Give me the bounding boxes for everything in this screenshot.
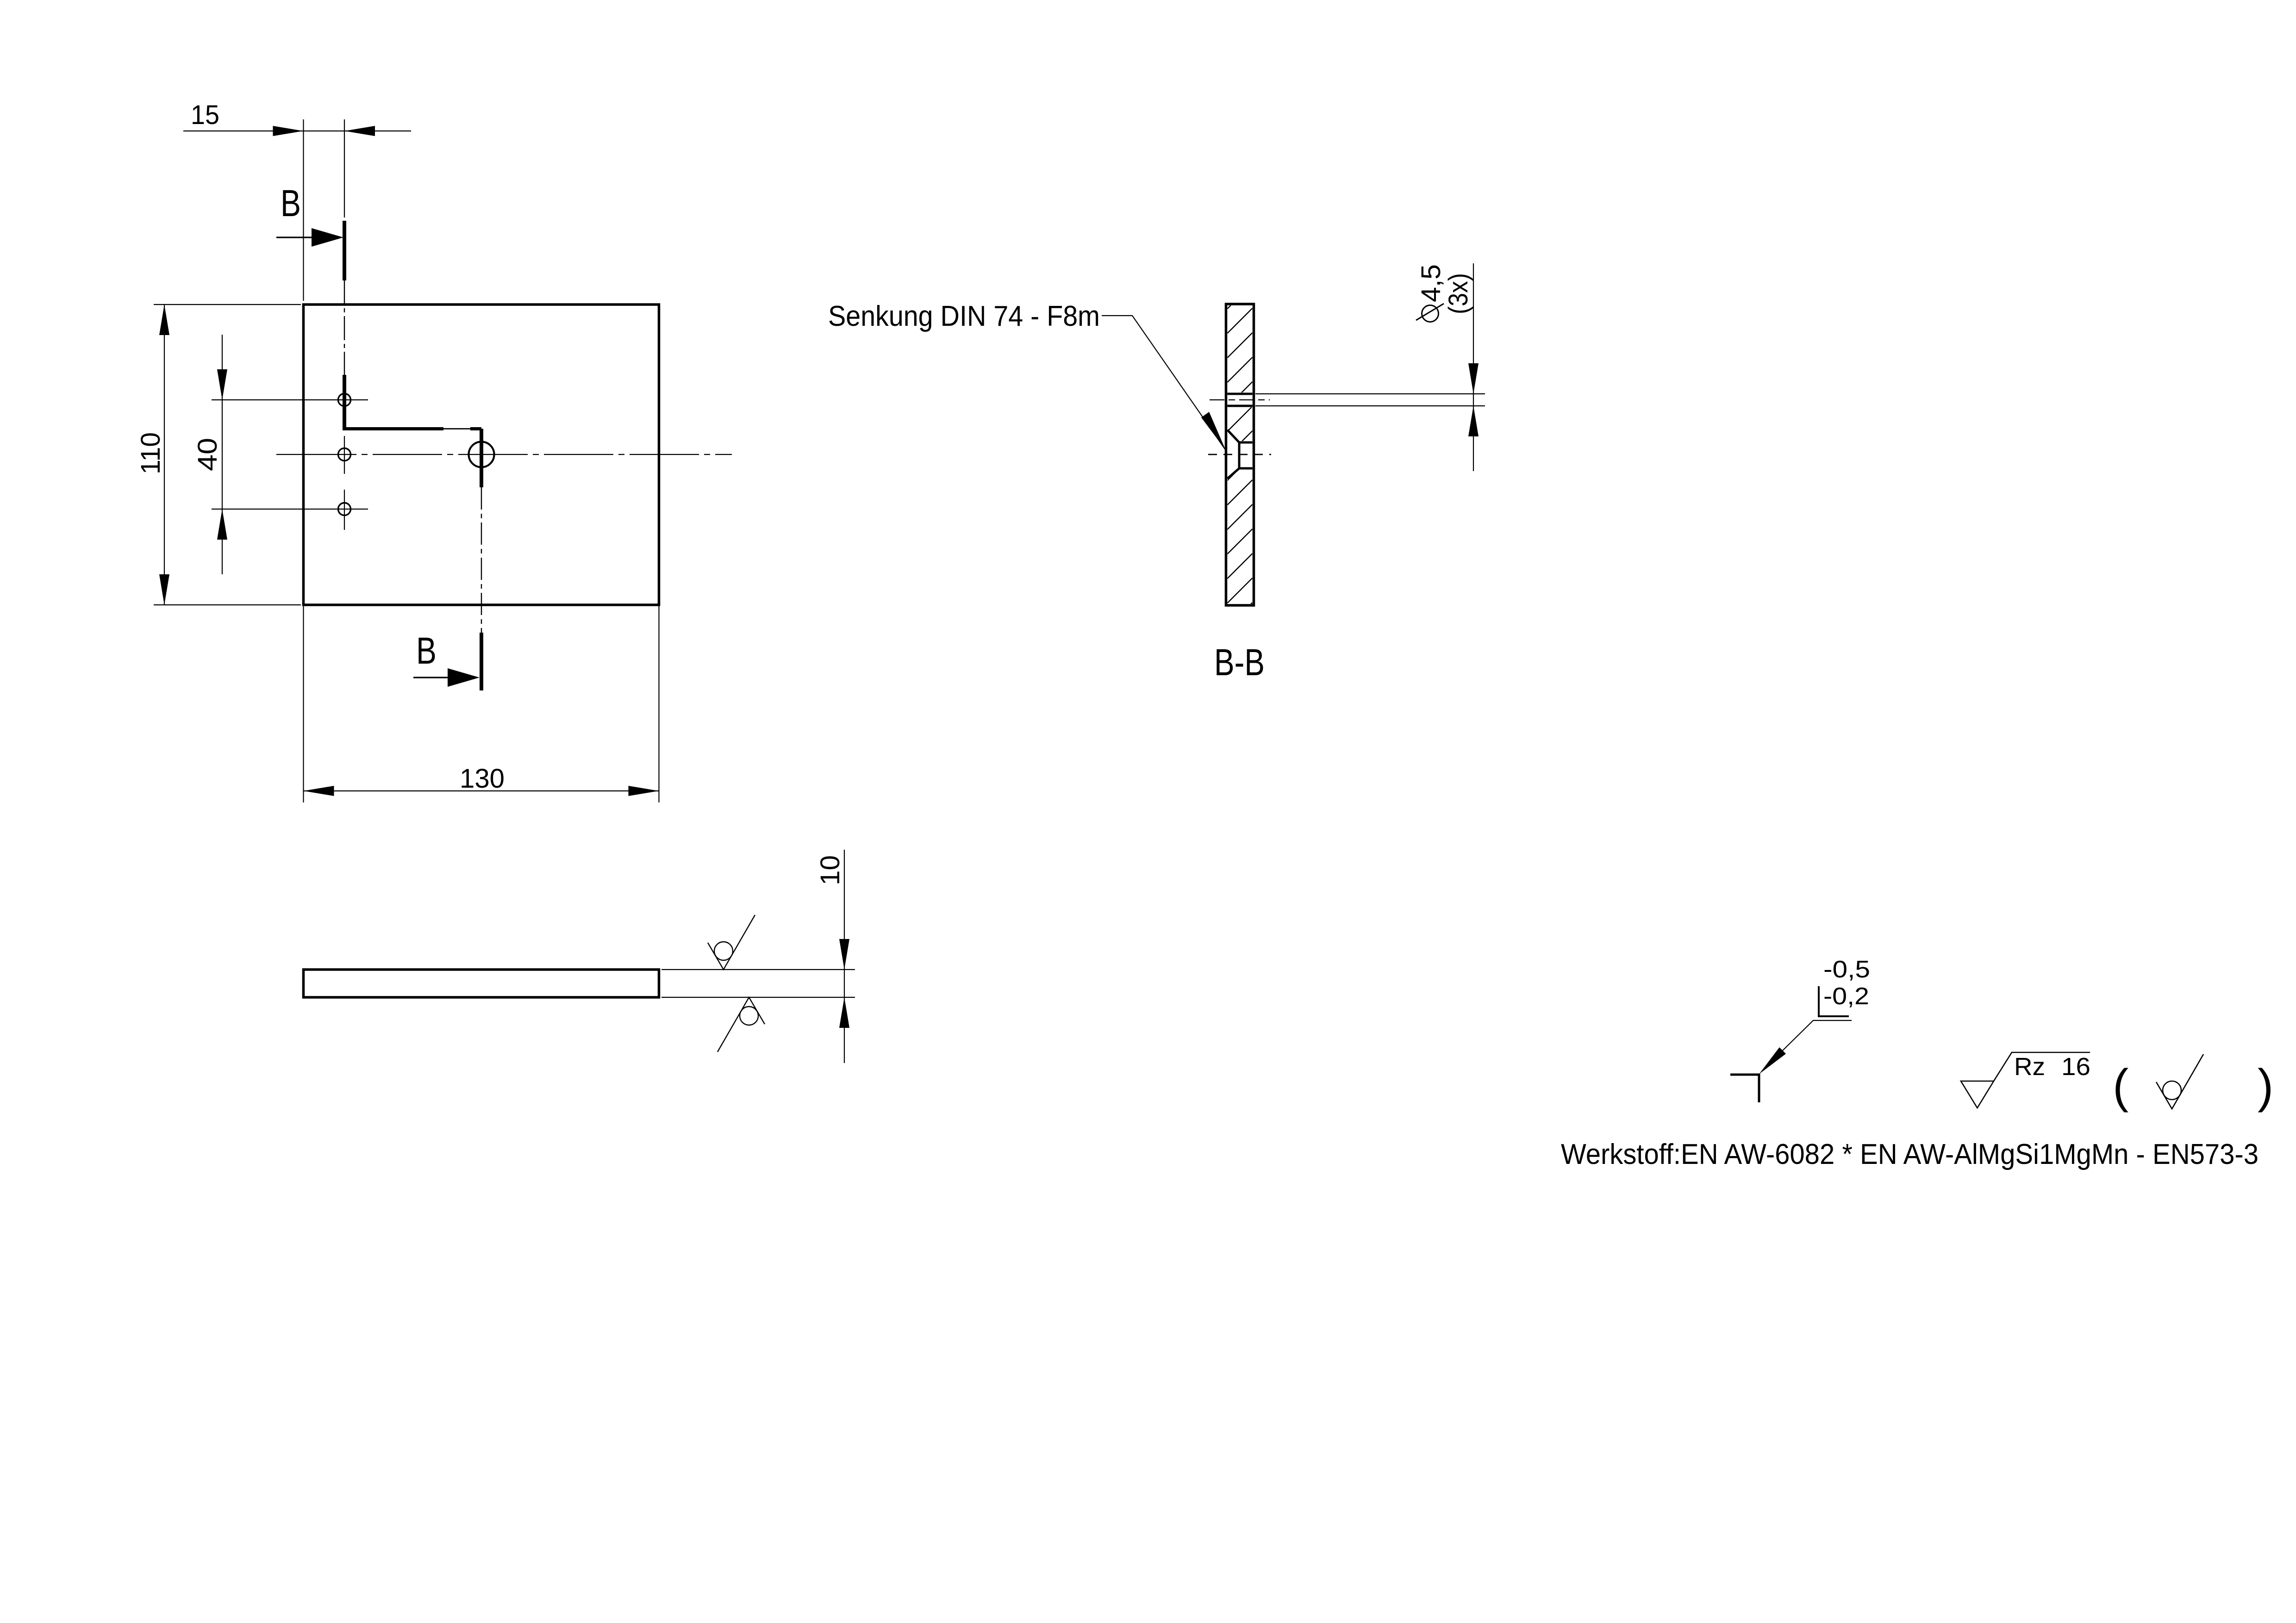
svg-text:B-B: B-B xyxy=(1214,641,1265,684)
dim 4,5: text dia 4,5 rotated xyxy=(1416,264,1446,322)
dim 15: extension line left xyxy=(303,119,304,301)
dim 130: arrow right xyxy=(629,786,659,796)
dim 4,5: dimension line xyxy=(1473,263,1474,471)
hole H3 horizontal centerline / ext line xyxy=(212,509,368,510)
svg-text:(3x): (3x) xyxy=(1443,273,1473,314)
countersink bore bottom edge xyxy=(1239,467,1253,470)
edge symbol bracket xyxy=(1819,986,1849,1016)
section through hole top edge xyxy=(1228,393,1253,395)
section line thick before bend xyxy=(343,375,346,430)
svg-text:40: 40 xyxy=(193,438,223,471)
hole H3 vertical centerline xyxy=(344,490,345,530)
dim 40: arrow bottom (outside) xyxy=(217,509,227,540)
dim 15: extension line right xyxy=(344,119,345,218)
dim 4,5: arrow top (outside) xyxy=(1468,363,1479,394)
section line chain upper xyxy=(344,280,345,375)
hole H1 (top, 4.5 dia) xyxy=(338,394,351,406)
svg-text:110: 110 xyxy=(136,432,166,474)
dim 4,5: arrow bottom (outside) xyxy=(1468,406,1479,436)
dim 110: arrow top xyxy=(159,305,169,335)
leader line xyxy=(1102,316,1226,450)
dim 10: arrow bottom (outside) xyxy=(839,997,849,1028)
section line horizontal step thin xyxy=(443,428,470,429)
hole H2 (middle, 4.5 dia) xyxy=(338,448,351,461)
section arrow top xyxy=(276,236,314,238)
dim 10: extension top xyxy=(661,969,855,970)
section line vertical after bend thick xyxy=(480,429,483,488)
section through hole bottom edge xyxy=(1228,405,1253,407)
svg-text:): ) xyxy=(2258,1059,2273,1113)
edge symbol leader xyxy=(1783,1020,1852,1051)
section line chain lower xyxy=(481,487,482,633)
hole H3 (bottom, 4.5 dia) xyxy=(338,503,351,516)
section line horizontal step thick xyxy=(344,427,443,430)
countersink circle xyxy=(469,442,494,467)
countersink cone upper edge xyxy=(1228,430,1240,442)
section arrow bottom xyxy=(413,677,450,678)
section line B-B: top thick segment xyxy=(343,221,346,280)
edge condition symbol corner xyxy=(1730,1075,1759,1102)
svg-text:B: B xyxy=(416,630,437,672)
roughness symbol Rz 16 xyxy=(1961,1052,2090,1108)
leader arrow xyxy=(1201,412,1226,450)
svg-text:16: 16 xyxy=(2061,1053,2090,1081)
hole H2 vertical centerline xyxy=(344,436,345,474)
svg-text:Werkstoff:EN AW-6082 * EN AW-A: Werkstoff:EN AW-6082 * EN AW-AlMgSi1MgMn… xyxy=(1561,1138,2259,1170)
svg-text:B: B xyxy=(281,182,301,224)
section line horizontal step corner thick xyxy=(470,427,481,430)
svg-text:-0,2: -0,2 xyxy=(1823,983,1869,1010)
dim 110: dimension line xyxy=(164,305,165,605)
svg-text:15: 15 xyxy=(191,100,219,130)
dim 40: arrow top (outside) xyxy=(217,369,227,400)
hole H1 horizontal centerline / ext line xyxy=(212,399,368,400)
countersink bore top edge xyxy=(1239,442,1253,444)
dim 130: extension right xyxy=(658,605,659,802)
dim 4,5: extension bottom xyxy=(1255,405,1485,406)
dim 15: arrow left xyxy=(273,126,304,136)
dim 110: extension top xyxy=(154,304,301,305)
section outline xyxy=(1226,304,1254,605)
through hole centerline xyxy=(1210,399,1270,400)
dim 15: dimension line xyxy=(183,131,411,131)
edge symbol arrow xyxy=(1759,1047,1786,1074)
no-removal surface symbol in parens xyxy=(2156,1054,2203,1109)
hatching upper region xyxy=(1228,284,1253,407)
dim 130: extension left xyxy=(303,605,304,802)
countersink bore left edge xyxy=(1238,442,1241,468)
svg-text:Senkung DIN 74 - F8m: Senkung DIN 74 - F8m xyxy=(828,300,1100,332)
dim 110: extension bottom xyxy=(154,604,301,605)
dim 10: arrow top (outside) xyxy=(839,939,849,970)
dim 130: arrow left xyxy=(304,786,334,796)
plate outline (130x110) xyxy=(304,305,659,605)
dim 40: dimension line xyxy=(222,335,223,574)
svg-text:Rz: Rz xyxy=(2014,1053,2045,1081)
horizontal centerline xyxy=(276,454,732,455)
surface symbol bottom face xyxy=(717,997,765,1052)
surface symbol top face xyxy=(708,915,755,970)
dim 10: extension bottom xyxy=(661,997,855,998)
dim 15: arrow right xyxy=(344,126,375,136)
svg-text:(: ( xyxy=(2113,1059,2128,1113)
section line bottom thick segment xyxy=(480,633,483,690)
svg-text:10: 10 xyxy=(815,855,845,885)
countersink cone lower edge xyxy=(1228,468,1240,479)
hatching middle region xyxy=(1228,406,1253,480)
dim 130: dimension line xyxy=(304,790,659,791)
dim 4,5: extension top xyxy=(1255,393,1485,394)
countersink centerline dashed xyxy=(1208,454,1271,455)
svg-text:4,5: 4,5 xyxy=(1416,264,1446,302)
svg-text:130: 130 xyxy=(460,764,505,794)
dim 10: dimension line xyxy=(844,850,845,1063)
svg-text:-0,5: -0,5 xyxy=(1823,956,1870,983)
side view plate (thickness 10) xyxy=(304,970,659,997)
hatching lower region xyxy=(1228,455,1253,628)
dim 110: arrow bottom xyxy=(159,574,169,605)
